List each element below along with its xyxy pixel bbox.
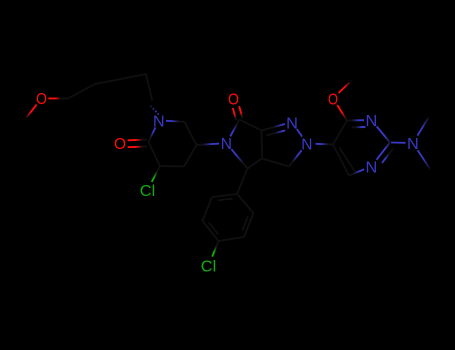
svg-text:O: O [328, 91, 338, 108]
svg-text:N: N [221, 136, 232, 153]
svg-text:O: O [114, 136, 126, 153]
svg-text:N: N [407, 136, 419, 153]
svg-text:N: N [366, 113, 378, 130]
svg-text:Cl: Cl [140, 183, 155, 200]
svg-text:N: N [153, 114, 165, 131]
svg-text:N: N [286, 115, 298, 132]
svg-text:N: N [301, 136, 312, 153]
svg-text:Cl: Cl [201, 258, 216, 275]
svg-text:O: O [36, 91, 47, 108]
svg-text:N: N [366, 159, 378, 176]
svg-text:O: O [228, 91, 239, 108]
